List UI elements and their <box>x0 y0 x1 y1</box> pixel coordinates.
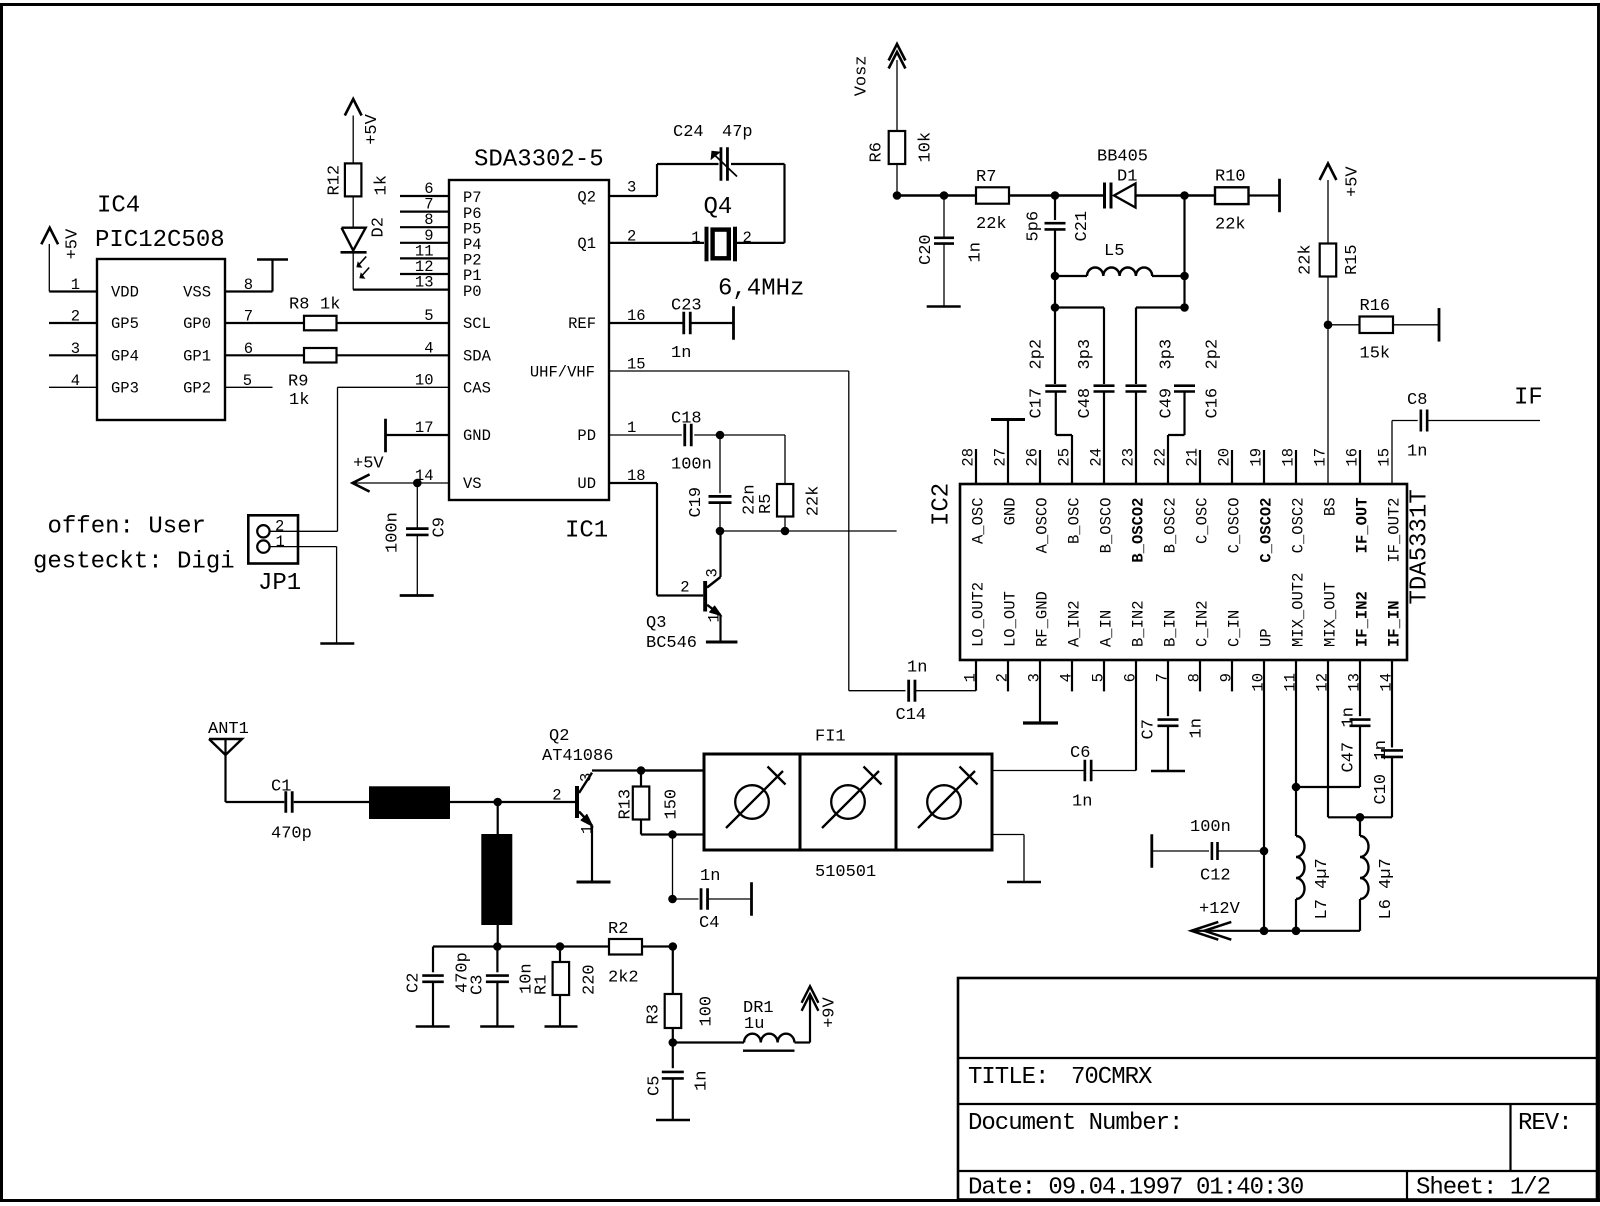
svg-text:Q2: Q2 <box>577 189 596 207</box>
svg-text:C16: C16 <box>1204 388 1223 419</box>
svg-text:GND: GND <box>463 427 491 445</box>
svg-text:Vosz: Vosz <box>853 55 872 96</box>
svg-text:C_OSCO2: C_OSCO2 <box>1257 498 1275 563</box>
svg-text:JP1: JP1 <box>258 570 301 597</box>
svg-text:R10: R10 <box>1215 168 1246 187</box>
svg-text:IF: IF <box>1514 385 1543 412</box>
svg-text:C21: C21 <box>1073 211 1092 242</box>
svg-text:L5: L5 <box>1104 242 1124 261</box>
svg-text:21: 21 <box>1184 448 1202 467</box>
svg-text:3: 3 <box>578 773 596 782</box>
svg-text:1u: 1u <box>744 1015 764 1034</box>
svg-text:R2: R2 <box>608 920 628 939</box>
svg-text:A_OSCO: A_OSCO <box>1033 498 1051 554</box>
svg-text:16: 16 <box>1344 448 1362 467</box>
svg-text:R9: R9 <box>288 373 308 392</box>
svg-text:GP0: GP0 <box>183 315 211 333</box>
svg-text:VDD: VDD <box>111 284 139 302</box>
svg-text:28: 28 <box>960 448 978 467</box>
svg-text:17: 17 <box>1312 448 1330 467</box>
svg-text:ANT1: ANT1 <box>208 720 249 739</box>
svg-text:10k: 10k <box>917 132 936 163</box>
svg-text:REF: REF <box>568 315 596 333</box>
svg-text:Sheet: 1/2: Sheet: 1/2 <box>1416 1175 1550 1202</box>
svg-text:1k: 1k <box>320 296 340 315</box>
svg-text:B_OSCO2: B_OSCO2 <box>1129 498 1147 563</box>
svg-text:18: 18 <box>1280 448 1298 467</box>
svg-text:IC2: IC2 <box>929 483 956 526</box>
svg-text:C23: C23 <box>671 297 702 316</box>
svg-text:VSS: VSS <box>183 284 211 302</box>
svg-text:BS: BS <box>1321 498 1339 517</box>
svg-text:IF_IN2: IF_IN2 <box>1353 591 1371 647</box>
svg-text:R3: R3 <box>645 1004 664 1024</box>
svg-text:5p6: 5p6 <box>1025 211 1044 242</box>
svg-text:A_IN2: A_IN2 <box>1065 600 1083 647</box>
svg-text:47p: 47p <box>722 123 753 142</box>
svg-text:IF_IN: IF_IN <box>1385 600 1403 647</box>
svg-text:C8: C8 <box>1407 391 1427 410</box>
svg-text:1: 1 <box>276 533 285 551</box>
svg-text:470p: 470p <box>271 825 312 844</box>
svg-text:1n: 1n <box>1072 793 1092 812</box>
svg-text:C18: C18 <box>671 410 702 429</box>
svg-text:R6: R6 <box>868 142 887 162</box>
svg-text:01:40:30: 01:40:30 <box>1196 1175 1303 1202</box>
svg-text:TITLE:: TITLE: <box>968 1064 1048 1091</box>
svg-text:offen: User: offen: User <box>48 514 206 541</box>
svg-text:26: 26 <box>1024 448 1042 467</box>
svg-text:22k: 22k <box>805 486 824 517</box>
svg-text:C3: C3 <box>469 975 488 995</box>
svg-text:+5V: +5V <box>1344 166 1363 197</box>
svg-text:D1: D1 <box>1117 168 1137 187</box>
svg-text:A_OSC: A_OSC <box>969 498 987 545</box>
svg-text:BC546: BC546 <box>646 634 697 653</box>
svg-text:IC4: IC4 <box>97 193 140 220</box>
svg-text:MIX_OUT2: MIX_OUT2 <box>1289 573 1307 647</box>
svg-text:C_IN2: C_IN2 <box>1193 600 1211 647</box>
svg-text:2: 2 <box>71 308 80 326</box>
svg-text:Q3: Q3 <box>646 614 666 633</box>
svg-text:B_OSCO: B_OSCO <box>1097 498 1115 554</box>
svg-text:PD: PD <box>577 427 596 445</box>
svg-text:C_IN: C_IN <box>1225 610 1243 647</box>
svg-text:SDA: SDA <box>463 348 492 366</box>
svg-text:25: 25 <box>1056 448 1074 467</box>
svg-text:C1: C1 <box>271 778 291 797</box>
svg-text:IF_OUT: IF_OUT <box>1353 498 1371 554</box>
svg-text:2: 2 <box>743 229 752 247</box>
svg-text:PIC12C508: PIC12C508 <box>95 227 225 254</box>
svg-text:8: 8 <box>244 276 253 294</box>
svg-text:23: 23 <box>1120 448 1138 467</box>
svg-text:100n: 100n <box>383 512 402 553</box>
svg-text:GP5: GP5 <box>111 315 139 333</box>
svg-text:22: 22 <box>1152 448 1170 467</box>
svg-text:1n: 1n <box>1407 443 1427 462</box>
svg-text:R1: R1 <box>533 975 552 995</box>
svg-text:3p3: 3p3 <box>1076 339 1095 370</box>
svg-text:C2: C2 <box>405 973 424 993</box>
svg-text:20: 20 <box>1216 448 1234 467</box>
svg-text:CAS: CAS <box>463 380 491 398</box>
svg-text:1k: 1k <box>373 175 392 195</box>
svg-text:1n: 1n <box>907 659 927 678</box>
svg-text:C47: C47 <box>1340 742 1359 773</box>
svg-text:C6: C6 <box>1070 744 1090 763</box>
svg-text:B_OSC: B_OSC <box>1065 498 1083 545</box>
svg-text:3: 3 <box>704 568 722 577</box>
svg-text:22k: 22k <box>1215 216 1246 235</box>
svg-text:+9V: +9V <box>821 996 840 1027</box>
svg-text:R7: R7 <box>976 168 996 187</box>
svg-text:+5V: +5V <box>353 455 384 474</box>
svg-text:1n: 1n <box>671 344 691 363</box>
svg-text:100: 100 <box>698 996 717 1027</box>
svg-text:6: 6 <box>244 340 253 358</box>
svg-text:+12V: +12V <box>1199 900 1241 919</box>
svg-text:1n: 1n <box>967 242 986 262</box>
svg-text:4: 4 <box>71 372 80 390</box>
svg-text:R12: R12 <box>326 165 345 196</box>
svg-text:27: 27 <box>992 448 1010 467</box>
svg-text:3: 3 <box>71 340 80 358</box>
svg-text:+5V: +5V <box>363 113 382 144</box>
svg-text:R13: R13 <box>617 789 636 820</box>
svg-text:C10: C10 <box>1372 774 1391 805</box>
svg-text:C48: C48 <box>1076 388 1095 419</box>
svg-text:2p2: 2p2 <box>1028 339 1047 370</box>
svg-text:+5V: +5V <box>64 228 83 259</box>
svg-text:1: 1 <box>71 276 80 294</box>
svg-text:SCL: SCL <box>463 315 491 333</box>
svg-text:gesteckt: Digi: gesteckt: Digi <box>33 549 235 576</box>
svg-text:C14: C14 <box>896 706 927 725</box>
svg-text:2p2: 2p2 <box>1204 339 1223 370</box>
svg-text:2k2: 2k2 <box>608 969 639 988</box>
svg-text:BB405: BB405 <box>1097 148 1148 167</box>
svg-text:TDA5331T: TDA5331T <box>1407 489 1434 604</box>
svg-text:510501: 510501 <box>815 863 876 882</box>
svg-text:220: 220 <box>581 964 600 995</box>
svg-text:100n: 100n <box>1190 818 1231 837</box>
svg-text:LO_OUT2: LO_OUT2 <box>969 582 987 647</box>
svg-text:Q1: Q1 <box>577 235 596 253</box>
svg-text:GND: GND <box>1001 498 1019 526</box>
svg-text:22k: 22k <box>976 215 1007 234</box>
svg-text:1: 1 <box>691 229 700 247</box>
svg-text:C17: C17 <box>1028 388 1047 419</box>
svg-text:C4: C4 <box>699 914 719 933</box>
svg-text:24: 24 <box>1088 448 1106 467</box>
svg-text:R16: R16 <box>1360 297 1391 316</box>
svg-text:5: 5 <box>424 307 433 325</box>
svg-text:1n: 1n <box>1340 707 1359 727</box>
svg-text:C_OSCO: C_OSCO <box>1225 498 1243 554</box>
svg-text:17: 17 <box>415 419 434 437</box>
svg-text:100n: 100n <box>671 456 712 475</box>
svg-text:AT41086: AT41086 <box>542 747 613 766</box>
svg-text:FI1: FI1 <box>815 728 846 747</box>
svg-text:13: 13 <box>415 274 434 292</box>
svg-text:SDA3302-5: SDA3302-5 <box>474 147 604 174</box>
svg-text:150: 150 <box>663 789 682 820</box>
svg-text:C_OSC: C_OSC <box>1193 498 1211 545</box>
svg-text:UHF/VHF: UHF/VHF <box>530 363 595 381</box>
svg-text:1: 1 <box>627 419 636 437</box>
svg-text:6,4MHz: 6,4MHz <box>718 276 804 303</box>
svg-text:C7: C7 <box>1140 719 1159 739</box>
svg-text:RF_GND: RF_GND <box>1033 591 1051 647</box>
svg-text:IC1: IC1 <box>565 518 608 545</box>
svg-text:Q2: Q2 <box>549 727 569 746</box>
svg-text:19: 19 <box>1248 448 1266 467</box>
svg-text:R15: R15 <box>1343 244 1362 275</box>
svg-text:C9: C9 <box>430 517 449 537</box>
svg-text:GP3: GP3 <box>111 380 139 398</box>
svg-text:1: 1 <box>706 613 724 622</box>
svg-text:C19: C19 <box>687 487 706 518</box>
svg-text:UP: UP <box>1257 628 1275 647</box>
svg-text:C20: C20 <box>917 234 936 265</box>
svg-text:1: 1 <box>579 825 597 834</box>
svg-text:15: 15 <box>1376 448 1394 467</box>
svg-text:C24: C24 <box>673 123 704 142</box>
svg-text:UD: UD <box>577 475 596 493</box>
svg-text:10: 10 <box>415 372 434 390</box>
svg-text:IF_OUT2: IF_OUT2 <box>1385 498 1403 563</box>
svg-text:MIX_OUT: MIX_OUT <box>1321 582 1339 647</box>
svg-text:C_OSC2: C_OSC2 <box>1289 498 1307 554</box>
svg-text:B_IN: B_IN <box>1161 610 1179 647</box>
svg-text:VS: VS <box>463 475 482 493</box>
svg-text:Document Number:: Document Number: <box>968 1110 1182 1137</box>
svg-text:1n: 1n <box>1188 718 1207 738</box>
svg-text:70CMRX: 70CMRX <box>1071 1064 1152 1091</box>
svg-text:A_IN: A_IN <box>1097 610 1115 647</box>
svg-text:5: 5 <box>243 372 252 390</box>
svg-text:R8: R8 <box>289 296 309 315</box>
svg-text:1n: 1n <box>1372 740 1391 760</box>
svg-text:L7 4µ7: L7 4µ7 <box>1313 858 1332 919</box>
svg-text:Date: 09.04.1997: Date: 09.04.1997 <box>968 1175 1182 1202</box>
svg-text:2: 2 <box>552 787 561 805</box>
svg-text:3: 3 <box>627 178 636 196</box>
svg-text:3p3: 3p3 <box>1158 339 1177 370</box>
svg-text:B_IN2: B_IN2 <box>1129 600 1147 647</box>
svg-text:D2: D2 <box>370 217 389 237</box>
svg-text:L6 4µ7: L6 4µ7 <box>1377 858 1396 919</box>
svg-text:2: 2 <box>680 579 689 597</box>
svg-text:GP1: GP1 <box>183 348 211 366</box>
svg-text:GP2: GP2 <box>183 380 211 398</box>
svg-text:1n: 1n <box>700 867 720 886</box>
svg-text:14: 14 <box>415 467 434 485</box>
svg-text:C12: C12 <box>1200 867 1231 886</box>
svg-text:GP4: GP4 <box>111 348 139 366</box>
svg-text:R5: R5 <box>757 494 776 514</box>
svg-text:7: 7 <box>244 308 253 326</box>
svg-text:C5: C5 <box>646 1076 665 1096</box>
svg-text:4: 4 <box>424 339 433 357</box>
svg-text:22k: 22k <box>1297 244 1316 275</box>
svg-text:P0: P0 <box>463 283 482 301</box>
svg-text:Q4: Q4 <box>704 194 733 221</box>
svg-text:1n: 1n <box>693 1071 712 1091</box>
svg-text:B_OSC2: B_OSC2 <box>1161 498 1179 554</box>
svg-text:LO_OUT: LO_OUT <box>1001 591 1019 647</box>
svg-text:15k: 15k <box>1360 345 1391 364</box>
svg-text:1k: 1k <box>289 391 309 410</box>
svg-text:C49: C49 <box>1158 388 1177 419</box>
svg-text:REV:: REV: <box>1518 1110 1572 1137</box>
